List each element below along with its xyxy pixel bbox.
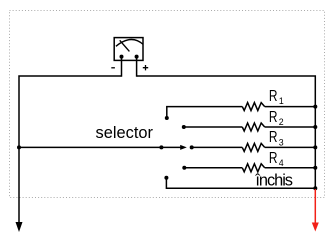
meter plus label (143, 65, 148, 70)
red current arrow (right, down) (314, 189, 316, 224)
selector arm arrow line (161, 146, 181, 148)
wire: meter plus lead down (136, 57, 138, 77)
wire: R4 branch lead (184, 167, 242, 169)
selector pivot dot (159, 145, 163, 149)
bus junction dot R4 (313, 166, 317, 170)
wire: meter minus lead down (121, 57, 123, 77)
contact dot R1 (165, 116, 169, 120)
resistor R2 zigzag (242, 123, 264, 131)
resistor R4 zigzag (242, 164, 264, 172)
wire: R3 to bus (265, 146, 316, 148)
contact dot R4 (182, 166, 186, 170)
wire: R1 branch lead (167, 107, 243, 118)
wire: R2 branch lead (184, 126, 243, 128)
bus junction dot inchis (313, 186, 317, 190)
svg-text:3: 3 (279, 137, 284, 147)
wire: R4 to bus (265, 167, 316, 169)
contact dot inchis (164, 176, 168, 180)
resistor R1 zigzag (242, 103, 264, 111)
svg-text:4: 4 (279, 158, 284, 168)
wire: top right horizontal (137, 76, 316, 188)
svg-text:R: R (269, 129, 278, 146)
meter U1 (galvanometer) body (114, 38, 143, 61)
svg-text:închis: închis (254, 172, 293, 190)
wire: inchis branch lead (166, 178, 315, 188)
svg-text:2: 2 (279, 117, 284, 127)
contact dot R2 (182, 125, 186, 129)
wire: R3 branch lead (192, 146, 243, 148)
meter needle (120, 40, 130, 51)
svg-text:selector: selector (96, 124, 154, 142)
wire: selector arm feed (19, 146, 161, 148)
meter scale arc (116, 40, 143, 47)
resistor R3 zigzag (242, 143, 264, 151)
bus junction dot R1 (313, 105, 317, 109)
svg-text:R: R (269, 109, 278, 126)
contact dot R3 (190, 145, 194, 149)
black current arrow (left, down) (16, 222, 23, 232)
wire: R1 to bus (265, 106, 316, 108)
dashed boundary frame (10, 11, 325, 198)
wire: R2 to bus (265, 126, 316, 128)
svg-text:R: R (269, 150, 278, 167)
selector arm arrowhead (180, 145, 187, 150)
bus junction dot R2 (313, 125, 317, 129)
junction dot: left selector feed (17, 145, 21, 149)
meter minus label (111, 67, 115, 69)
meter terminal dot minus (120, 55, 124, 59)
wire: top left horizontal (19, 76, 122, 224)
bus junction dot R3 (313, 145, 317, 149)
svg-text:1: 1 (279, 96, 284, 106)
svg-text:R: R (269, 88, 278, 105)
meter terminal dot plus (135, 55, 139, 59)
